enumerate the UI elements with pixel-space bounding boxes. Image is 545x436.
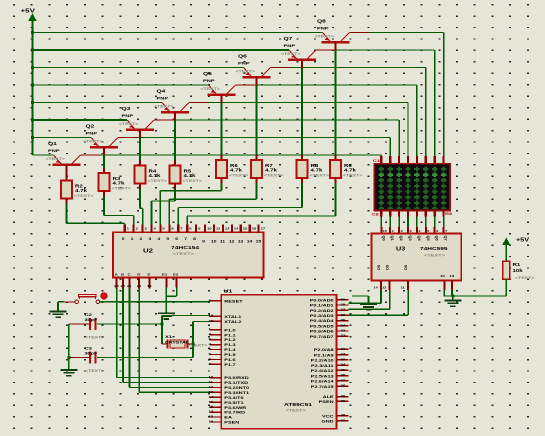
svg-text:Q6: Q6 [238, 54, 247, 59]
svg-text:14: 14 [234, 227, 239, 230]
svg-text:P3.7/RD: P3.7/RD [224, 410, 245, 415]
svg-text:6: 6 [209, 353, 211, 356]
svg-text:<TEXT>: <TEXT> [343, 173, 363, 177]
svg-text:P2.1/A9: P2.1/A9 [314, 353, 334, 358]
svg-text:Q1: Q1 [48, 142, 58, 147]
svg-text:<TEXT>: <TEXT> [183, 179, 203, 183]
svg-text:B: B [121, 273, 124, 276]
svg-text:6: 6 [171, 227, 173, 230]
svg-text:15: 15 [256, 239, 262, 243]
svg-text:<TEXT>: <TEXT> [112, 186, 132, 190]
svg-text:P3.5/T1: P3.5/T1 [224, 401, 244, 406]
svg-text:<TEXT>: <TEXT> [173, 252, 195, 257]
svg-text:5: 5 [162, 227, 164, 230]
svg-text:10: 10 [207, 227, 212, 230]
svg-text:11: 11 [220, 239, 226, 243]
svg-text:<TEXT>: <TEXT> [281, 52, 301, 56]
svg-text:VCC: VCC [322, 414, 334, 419]
svg-text:<TEXT>: <TEXT> [74, 194, 94, 198]
svg-text:<TEXT>: <TEXT> [85, 335, 105, 339]
svg-text:4: 4 [418, 229, 420, 232]
svg-text:11: 11 [401, 286, 405, 289]
svg-text:R1: R1 [513, 263, 521, 268]
svg-text:37: 37 [341, 308, 346, 311]
svg-text:3: 3 [209, 338, 211, 341]
svg-text:RESET: RESET [224, 299, 242, 304]
svg-text:P0.0/AD0: P0.0/AD0 [310, 298, 334, 303]
svg-text:P3.6/WR: P3.6/WR [224, 406, 247, 411]
svg-text:16: 16 [209, 405, 214, 408]
svg-text:ALE: ALE [323, 395, 334, 400]
svg-text:PNP: PNP [203, 79, 215, 84]
svg-text:Q0: Q0 [381, 236, 385, 241]
svg-text:<TEXT>: <TEXT> [515, 276, 535, 280]
svg-text:<TEXT>: <TEXT> [315, 34, 335, 38]
svg-text:5: 5 [209, 348, 211, 351]
svg-text:21: 21 [341, 347, 346, 350]
svg-text:22: 22 [121, 285, 126, 288]
svg-text:3: 3 [410, 229, 412, 232]
svg-text:P2.6/A14: P2.6/A14 [311, 379, 334, 384]
svg-text:3: 3 [145, 227, 147, 230]
svg-text:1: 1 [392, 229, 394, 232]
svg-text:P3.2/INT0: P3.2/INT0 [224, 386, 249, 391]
svg-text:16: 16 [252, 227, 257, 230]
svg-text:<TEXT>: <TEXT> [236, 69, 256, 73]
svg-text:<TEXT>: <TEXT> [264, 173, 284, 177]
svg-text:U1: U1 [224, 289, 234, 294]
svg-text:P3.4/T0: P3.4/T0 [224, 396, 244, 401]
svg-text:P1.4: P1.4 [224, 348, 236, 353]
svg-text:<TEXT>: <TEXT> [119, 122, 139, 126]
svg-text:<TEXT>: <TEXT> [424, 253, 445, 258]
svg-text:P0.2/AD2: P0.2/AD2 [310, 309, 334, 314]
svg-text:15: 15 [243, 227, 248, 230]
svg-text:PNP: PNP [48, 149, 60, 154]
svg-text:Q3: Q3 [408, 236, 412, 241]
svg-text:P1.3: P1.3 [224, 343, 236, 348]
svg-text:40: 40 [341, 414, 346, 417]
svg-text:11: 11 [216, 227, 220, 230]
svg-text:30pF: 30pF [85, 318, 98, 323]
svg-text:P2.7/A15: P2.7/A15 [311, 385, 334, 390]
svg-text:35: 35 [341, 319, 346, 322]
svg-text:20: 20 [341, 419, 346, 422]
svg-text:<TEXT>: <TEXT> [286, 408, 306, 412]
svg-text:A: A [115, 273, 118, 276]
svg-text:P2.2/A10: P2.2/A10 [311, 358, 334, 363]
svg-text:15: 15 [383, 229, 387, 232]
svg-text:14: 14 [374, 286, 378, 289]
svg-text:74HC595: 74HC595 [420, 247, 448, 252]
svg-text:17: 17 [261, 227, 266, 230]
svg-text:C1: C1 [373, 159, 380, 164]
svg-text:C: C [128, 273, 131, 276]
svg-text:PSEN: PSEN [319, 400, 335, 405]
svg-text:22: 22 [341, 353, 346, 356]
svg-text:1: 1 [209, 328, 211, 331]
svg-text:13: 13 [238, 239, 244, 243]
svg-text:2: 2 [209, 333, 211, 336]
svg-text:PNP: PNP [317, 26, 329, 31]
svg-text:12: 12 [382, 286, 386, 289]
svg-text:P3.1/TXD: P3.1/TXD [224, 381, 249, 386]
svg-text:EA: EA [224, 415, 232, 420]
svg-text:10: 10 [440, 275, 445, 278]
svg-text:<TEXT>: <TEXT> [154, 104, 174, 108]
svg-text:+5V: +5V [516, 237, 530, 243]
svg-text:15: 15 [209, 400, 214, 403]
svg-text:4: 4 [153, 227, 155, 230]
svg-text:PNP: PNP [238, 61, 250, 66]
svg-text:13: 13 [450, 275, 455, 278]
svg-text:26: 26 [341, 374, 346, 377]
svg-text:<TEXT>: <TEXT> [46, 157, 66, 161]
svg-text:<TEXT>: <TEXT> [229, 173, 249, 177]
svg-text:AT89C51: AT89C51 [284, 403, 313, 408]
svg-text:PSEN: PSEN [224, 420, 240, 425]
svg-text:Q4: Q4 [157, 89, 167, 94]
svg-text:P0.7/AD7: P0.7/AD7 [310, 335, 334, 340]
svg-text:36: 36 [341, 313, 346, 316]
svg-text:P0.6/AD6: P0.6/AD6 [310, 329, 334, 334]
svg-text:12: 12 [229, 239, 235, 243]
svg-text:Q8: Q8 [317, 19, 326, 24]
svg-text:18: 18 [209, 415, 214, 418]
svg-text:10k: 10k [513, 269, 523, 274]
svg-text:Q1: Q1 [390, 236, 394, 241]
svg-text:GND: GND [321, 419, 334, 424]
svg-text:1: 1 [127, 227, 129, 230]
svg-text:DS: DS [386, 264, 390, 270]
svg-text:30pF: 30pF [85, 351, 98, 356]
svg-text:D: D [137, 273, 140, 276]
svg-text:X1: X1 [165, 335, 172, 340]
svg-text:7: 7 [180, 227, 182, 230]
svg-text:E2: E2 [173, 273, 178, 276]
svg-text:8: 8 [209, 363, 211, 366]
svg-text:C2: C2 [85, 313, 93, 318]
svg-text:11: 11 [209, 381, 214, 384]
svg-text:PNP: PNP [157, 96, 169, 101]
svg-text:E1: E1 [162, 273, 167, 276]
svg-text:P3.3/INT1: P3.3/INT1 [224, 391, 249, 396]
svg-text:DS: DS [377, 264, 381, 270]
svg-text:7: 7 [209, 358, 211, 361]
svg-text:14: 14 [247, 239, 253, 243]
svg-text:Q4: Q4 [417, 236, 421, 241]
svg-text:Q5: Q5 [426, 236, 430, 241]
svg-text:6: 6 [436, 229, 438, 232]
svg-text:Q5: Q5 [203, 72, 213, 77]
svg-text:P1.1: P1.1 [224, 333, 236, 338]
svg-text:Q2: Q2 [399, 236, 403, 241]
svg-text:27: 27 [341, 379, 346, 382]
svg-text:5: 5 [427, 229, 429, 232]
svg-text:PNP: PNP [86, 131, 98, 136]
svg-text:P2.3/A11: P2.3/A11 [311, 364, 334, 369]
svg-text:P1.7: P1.7 [224, 363, 236, 368]
svg-text:XTAL1: XTAL1 [224, 315, 241, 320]
svg-text:12: 12 [225, 227, 230, 230]
svg-text:P2.5/A13: P2.5/A13 [311, 374, 334, 379]
svg-text:U3: U3 [396, 246, 406, 252]
svg-text:P2.0/A8: P2.0/A8 [314, 348, 334, 353]
svg-text:10: 10 [209, 376, 214, 379]
svg-text:Q3: Q3 [122, 107, 131, 112]
svg-text:20: 20 [137, 285, 142, 288]
svg-text:C3: C3 [85, 346, 93, 351]
svg-text:P1.5: P1.5 [224, 353, 236, 358]
svg-text:21: 21 [127, 285, 132, 288]
svg-text:P0.5/AD5: P0.5/AD5 [310, 324, 334, 329]
svg-text:PNP: PNP [122, 114, 134, 119]
svg-text:XTAL2: XTAL2 [224, 320, 241, 325]
svg-text:DS: DS [404, 264, 408, 270]
svg-text:P1.6: P1.6 [224, 358, 236, 363]
svg-text:Q6: Q6 [435, 236, 439, 241]
svg-text:38: 38 [341, 303, 346, 306]
svg-text:13: 13 [209, 390, 214, 393]
svg-text:P2.4/A12: P2.4/A12 [311, 369, 334, 374]
svg-text:+5V: +5V [21, 8, 36, 14]
svg-text:29: 29 [341, 399, 346, 402]
svg-text:R8: R8 [445, 212, 452, 217]
svg-text:<TEXT>: <TEXT> [310, 173, 330, 177]
svg-text:U2: U2 [143, 248, 153, 254]
svg-text:Q7: Q7 [284, 37, 293, 42]
svg-text:2: 2 [136, 227, 138, 230]
svg-text:<TEXT>: <TEXT> [148, 179, 168, 183]
svg-text:23: 23 [114, 285, 119, 288]
svg-text:33: 33 [341, 329, 346, 332]
svg-text:25: 25 [341, 368, 346, 371]
svg-text:<TEXT>: <TEXT> [83, 139, 103, 143]
svg-text:P3.0/RXD: P3.0/RXD [224, 376, 249, 381]
svg-text:12: 12 [209, 386, 214, 389]
svg-text:2: 2 [401, 229, 403, 232]
svg-text:8: 8 [189, 227, 191, 230]
svg-text:C8: C8 [372, 212, 379, 217]
svg-text:P1.2: P1.2 [224, 338, 236, 343]
svg-text:CRYSTAL: CRYSTAL [165, 340, 189, 344]
svg-text:30: 30 [341, 395, 346, 398]
svg-text:9: 9 [198, 227, 200, 230]
svg-text:<TEXT>: <TEXT> [85, 369, 105, 373]
svg-text:74HC154: 74HC154 [171, 246, 200, 251]
svg-text:<TEXT>: <TEXT> [201, 87, 221, 91]
svg-text:P1.0: P1.0 [224, 328, 236, 333]
svg-text:Q2: Q2 [86, 124, 95, 129]
svg-text:39: 39 [341, 298, 346, 301]
svg-text:7: 7 [445, 229, 447, 232]
svg-text:<TEXT>: <TEXT> [188, 343, 208, 347]
svg-text:P0.1/AD1: P0.1/AD1 [310, 303, 334, 308]
svg-text:28: 28 [341, 384, 346, 387]
svg-text:19: 19 [147, 285, 152, 288]
svg-text:Q7: Q7 [444, 236, 448, 241]
svg-text:PNP: PNP [284, 44, 296, 49]
svg-text:P0.4/AD4: P0.4/AD4 [310, 319, 334, 324]
svg-text:10: 10 [211, 239, 217, 243]
svg-text:17: 17 [209, 410, 214, 413]
svg-text:32: 32 [341, 334, 346, 337]
svg-text:19: 19 [209, 420, 214, 423]
svg-text:P0.3/AD3: P0.3/AD3 [310, 314, 334, 319]
svg-text:23: 23 [341, 358, 346, 361]
